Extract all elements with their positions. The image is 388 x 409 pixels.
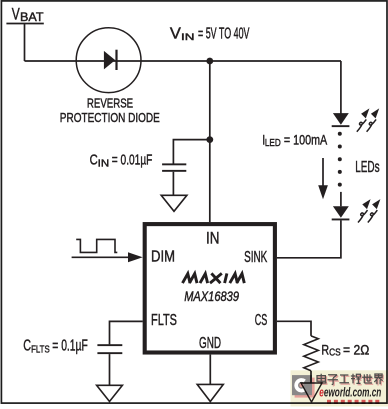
resistor RCS — [304, 336, 319, 371]
svg-text:C: C — [23, 338, 31, 355]
label CFLTS = 0.1uF — [23, 338, 88, 356]
svg-text:PROTECTION DIODE: PROTECTION DIODE — [60, 110, 160, 125]
svg-text:BAT: BAT — [20, 12, 44, 24]
svg-text:IN: IN — [206, 228, 220, 247]
capacitor CFLTS — [97, 344, 122, 354]
svg-text:eeworld.com.cn: eeworld.com.cn — [319, 385, 381, 400]
MAXIM logo — [183, 273, 245, 283]
svg-text:CS: CS — [329, 347, 341, 358]
LED D3 light arrows — [358, 199, 380, 222]
wire GND pin — [209, 355, 211, 385]
svg-text:R: R — [321, 342, 329, 358]
wire CS branch — [277, 321, 311, 336]
junction node at VIN — [206, 58, 213, 65]
wire RCS to ground — [310, 371, 312, 383]
svg-text:MAX16839: MAX16839 — [184, 289, 239, 304]
battery terminal bar VBAT — [6, 23, 43, 25]
svg-text:FLTS: FLTS — [151, 312, 177, 329]
svg-text:IN: IN — [181, 32, 195, 43]
wire LED string to SINK — [277, 220, 341, 257]
svg-text:CS: CS — [255, 312, 267, 329]
label ILED = 100mA — [262, 132, 327, 149]
watermark eeworld overlay — [291, 370, 388, 406]
svg-text:= 0.1µF: = 0.1µF — [52, 338, 88, 355]
LED string ellipsis dots — [338, 132, 342, 187]
DIM square wave symbol — [76, 239, 117, 252]
wire FLTS branch — [110, 321, 143, 344]
svg-text:FLTS: FLTS — [31, 345, 50, 356]
current direction arrow ILED — [318, 158, 328, 199]
diode D1 — [104, 50, 118, 70]
ground symbol RCS — [301, 383, 322, 402]
capacitor CIN — [162, 163, 186, 171]
wire between dots and LED D3 — [340, 192, 342, 206]
svg-text:GND: GND — [199, 335, 221, 352]
wire VBAT vertical — [24, 24, 26, 62]
svg-text:SINK: SINK — [244, 249, 267, 266]
svg-text:= 5V TO 40V: = 5V TO 40V — [198, 26, 250, 43]
ground symbol CFLTS — [97, 385, 123, 401]
wire LED string top vertical — [340, 61, 342, 114]
svg-text:V: V — [12, 5, 20, 23]
wire DIM input — [72, 256, 129, 258]
op IC U1 MAX16839 body — [145, 224, 275, 352]
ground symbol GND — [197, 384, 223, 401]
node VBAT label — [12, 5, 44, 24]
ground symbol CIN — [161, 195, 187, 211]
wire IN vertical — [209, 61, 211, 222]
svg-text:LEDs: LEDs — [355, 159, 379, 176]
svg-text:= 100mA: = 100mA — [284, 132, 328, 148]
svg-text:V: V — [170, 26, 181, 43]
junction node at CIN tap — [206, 136, 213, 143]
svg-text:REVERSE: REVERSE — [87, 95, 133, 110]
svg-text:C: C — [90, 152, 98, 169]
wire CIN to ground — [172, 172, 174, 196]
wire main top horizontal — [25, 60, 342, 62]
label REVERSE PROTECTION DIODE — [60, 95, 160, 125]
svg-text:= 0.01µF: = 0.01µF — [112, 152, 153, 169]
wire CFLTS to ground — [109, 354, 111, 385]
svg-text:= 2Ω: = 2Ω — [343, 342, 369, 358]
arrow into DIM pin — [128, 252, 143, 262]
label CIN = 0.01uF — [90, 152, 153, 170]
LED D3 — [332, 206, 350, 220]
wire CIN branch — [173, 140, 209, 164]
svg-text:LED: LED — [265, 138, 281, 149]
label RCS = 2ohm — [321, 342, 369, 358]
LED D2 — [332, 113, 350, 127]
label VIN = 5V TO 40V — [170, 26, 250, 43]
LED D2 light arrows — [357, 108, 379, 131]
reverse protection diode circle — [76, 28, 141, 93]
svg-text:IN: IN — [98, 158, 110, 169]
svg-text:DIM: DIM — [151, 249, 175, 266]
